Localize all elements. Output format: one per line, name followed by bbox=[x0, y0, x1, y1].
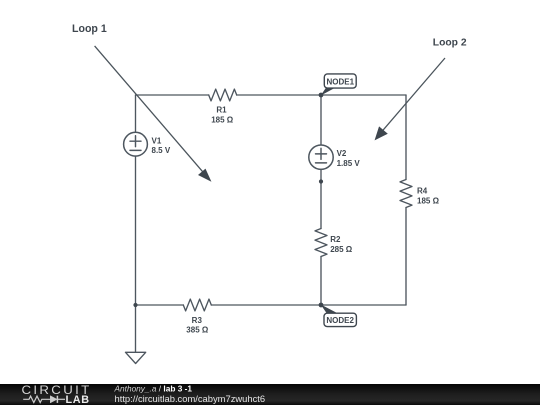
svg-text:285 Ω: 285 Ω bbox=[330, 245, 353, 254]
wire V2 to R2 bbox=[320, 169, 322, 228]
svg-text:http://circuitlab.com/cabym7zw: http://circuitlab.com/cabym7zwuhct6 bbox=[115, 393, 266, 404]
node junction NODE2 dot bbox=[319, 303, 324, 308]
wire bottom right segment bbox=[211, 304, 406, 306]
wire right vertical lower bbox=[405, 208, 407, 306]
wire top left segment bbox=[136, 94, 209, 96]
svg-text:R2: R2 bbox=[330, 235, 341, 244]
wire left vertical lower bbox=[135, 156, 137, 305]
svg-text:Anthony_.a / lab 3 -1: Anthony_.a / lab 3 -1 bbox=[114, 383, 193, 393]
svg-text:1.85 V: 1.85 V bbox=[337, 159, 361, 168]
svg-text:V2: V2 bbox=[337, 149, 347, 158]
resistor R3 bbox=[183, 299, 211, 311]
node label NODE2 bbox=[324, 313, 356, 326]
wire bottom left segment bbox=[136, 304, 184, 306]
svg-text:V1: V1 bbox=[152, 136, 162, 145]
svg-text:NODE1: NODE1 bbox=[327, 77, 355, 86]
NODE2 label tail bbox=[321, 304, 339, 313]
svg-text:R4: R4 bbox=[417, 187, 428, 196]
voltage source V1 bbox=[124, 132, 148, 156]
svg-text:185 Ω: 185 Ω bbox=[211, 115, 234, 124]
svg-text:385 Ω: 385 Ω bbox=[186, 326, 209, 335]
logo diode bbox=[50, 396, 65, 403]
arrow loop 1 bbox=[95, 46, 211, 181]
wire right vertical upper bbox=[405, 95, 407, 180]
arrow loop 2 bbox=[375, 58, 445, 139]
resistor R2 bbox=[315, 229, 327, 257]
svg-text:NODE2: NODE2 bbox=[326, 316, 354, 325]
resistor R4 bbox=[400, 180, 412, 208]
svg-text:R1: R1 bbox=[216, 106, 227, 115]
svg-text:LAB: LAB bbox=[66, 394, 90, 405]
voltage source V2 bbox=[309, 145, 333, 169]
wire top right segment bbox=[237, 94, 406, 96]
wire left vertical upper bbox=[135, 95, 137, 132]
svg-text:R3: R3 bbox=[192, 316, 203, 325]
svg-text:Loop 1: Loop 1 bbox=[72, 23, 107, 35]
wire to ground bbox=[135, 305, 137, 352]
junction dot bottom-left bbox=[133, 303, 137, 307]
resistor R1 bbox=[209, 89, 237, 101]
ground bbox=[126, 352, 146, 363]
wire middle vertical upper bbox=[320, 95, 322, 145]
footer bar bbox=[0, 384, 540, 405]
wire R2 to bottom bbox=[320, 257, 322, 306]
svg-text:8.5 V: 8.5 V bbox=[152, 146, 171, 155]
logo resistor squiggle bbox=[23, 396, 50, 402]
svg-text:Loop 2: Loop 2 bbox=[433, 37, 467, 48]
svg-text:185 Ω: 185 Ω bbox=[417, 196, 440, 205]
NODE1 label tail bbox=[321, 87, 336, 95]
node junction NODE1 dot bbox=[319, 93, 324, 98]
junction dot below V2 bbox=[319, 179, 323, 183]
node label NODE1 bbox=[324, 74, 356, 88]
